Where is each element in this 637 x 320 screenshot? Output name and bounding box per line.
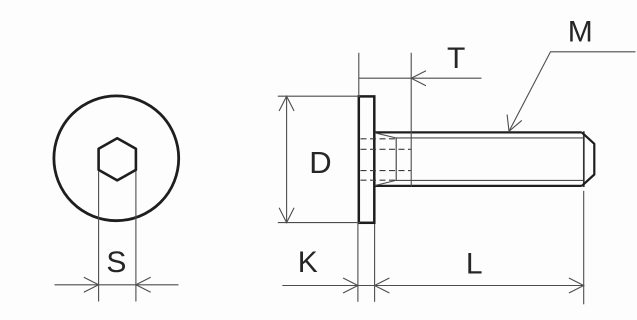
K arrow left (points right)	[343, 278, 358, 293]
S arrow right (points left)	[136, 277, 151, 292]
svg-text:T: T	[447, 42, 465, 75]
S extension line right	[135, 171, 137, 302]
hex socket hidden line inner top	[361, 148, 412, 150]
M leader arrowhead	[507, 115, 522, 132]
K extension line left	[357, 224, 359, 302]
hex socket (front view)	[99, 138, 136, 180]
S dimension line	[55, 284, 179, 286]
screw head rectangle (side view)	[359, 96, 375, 222]
D dimension line	[286, 96, 288, 222]
shank major diameter bottom line	[376, 185, 582, 187]
socket flat-bottom vertical line	[395, 138, 397, 181]
M leader line	[509, 52, 636, 132]
head outline circle (front view)	[54, 96, 179, 221]
socket depth vertical line / T extension line	[410, 53, 412, 187]
S arrow left (points right)	[84, 277, 99, 292]
D arrow up	[279, 96, 294, 111]
D extension line top	[278, 95, 360, 97]
hex socket hidden line inner bottom	[361, 170, 412, 172]
svg-text:M: M	[568, 16, 593, 49]
chamfered screw tip outline	[582, 132, 595, 186]
svg-text:D: D	[309, 145, 331, 180]
hex socket hidden line outer bottom	[361, 179, 397, 181]
S extension line left	[98, 171, 100, 302]
T dimension line	[359, 77, 482, 79]
L extension line	[583, 191, 585, 304]
thread runout slant bottom	[375, 180, 396, 185]
hex socket hidden line outer top	[361, 138, 397, 140]
thread runout slant top	[375, 133, 396, 138]
D arrow down	[279, 208, 294, 223]
K/L arrow (points left)	[375, 278, 390, 293]
thread minor diameter bottom line	[396, 179, 584, 181]
T arrow (points left)	[411, 71, 426, 86]
L arrow right (points right)	[569, 278, 584, 293]
svg-text:S: S	[106, 246, 126, 279]
T head-face extension line	[358, 53, 360, 96]
thread end vertical line	[583, 131, 585, 187]
thread minor diameter top line	[396, 137, 584, 139]
svg-text:L: L	[466, 248, 483, 281]
D extension line bottom	[278, 222, 360, 224]
shank major diameter top line	[376, 131, 582, 133]
K and L shared dimension line	[282, 285, 583, 287]
svg-text:K: K	[298, 246, 318, 279]
K extension line right	[374, 224, 376, 302]
